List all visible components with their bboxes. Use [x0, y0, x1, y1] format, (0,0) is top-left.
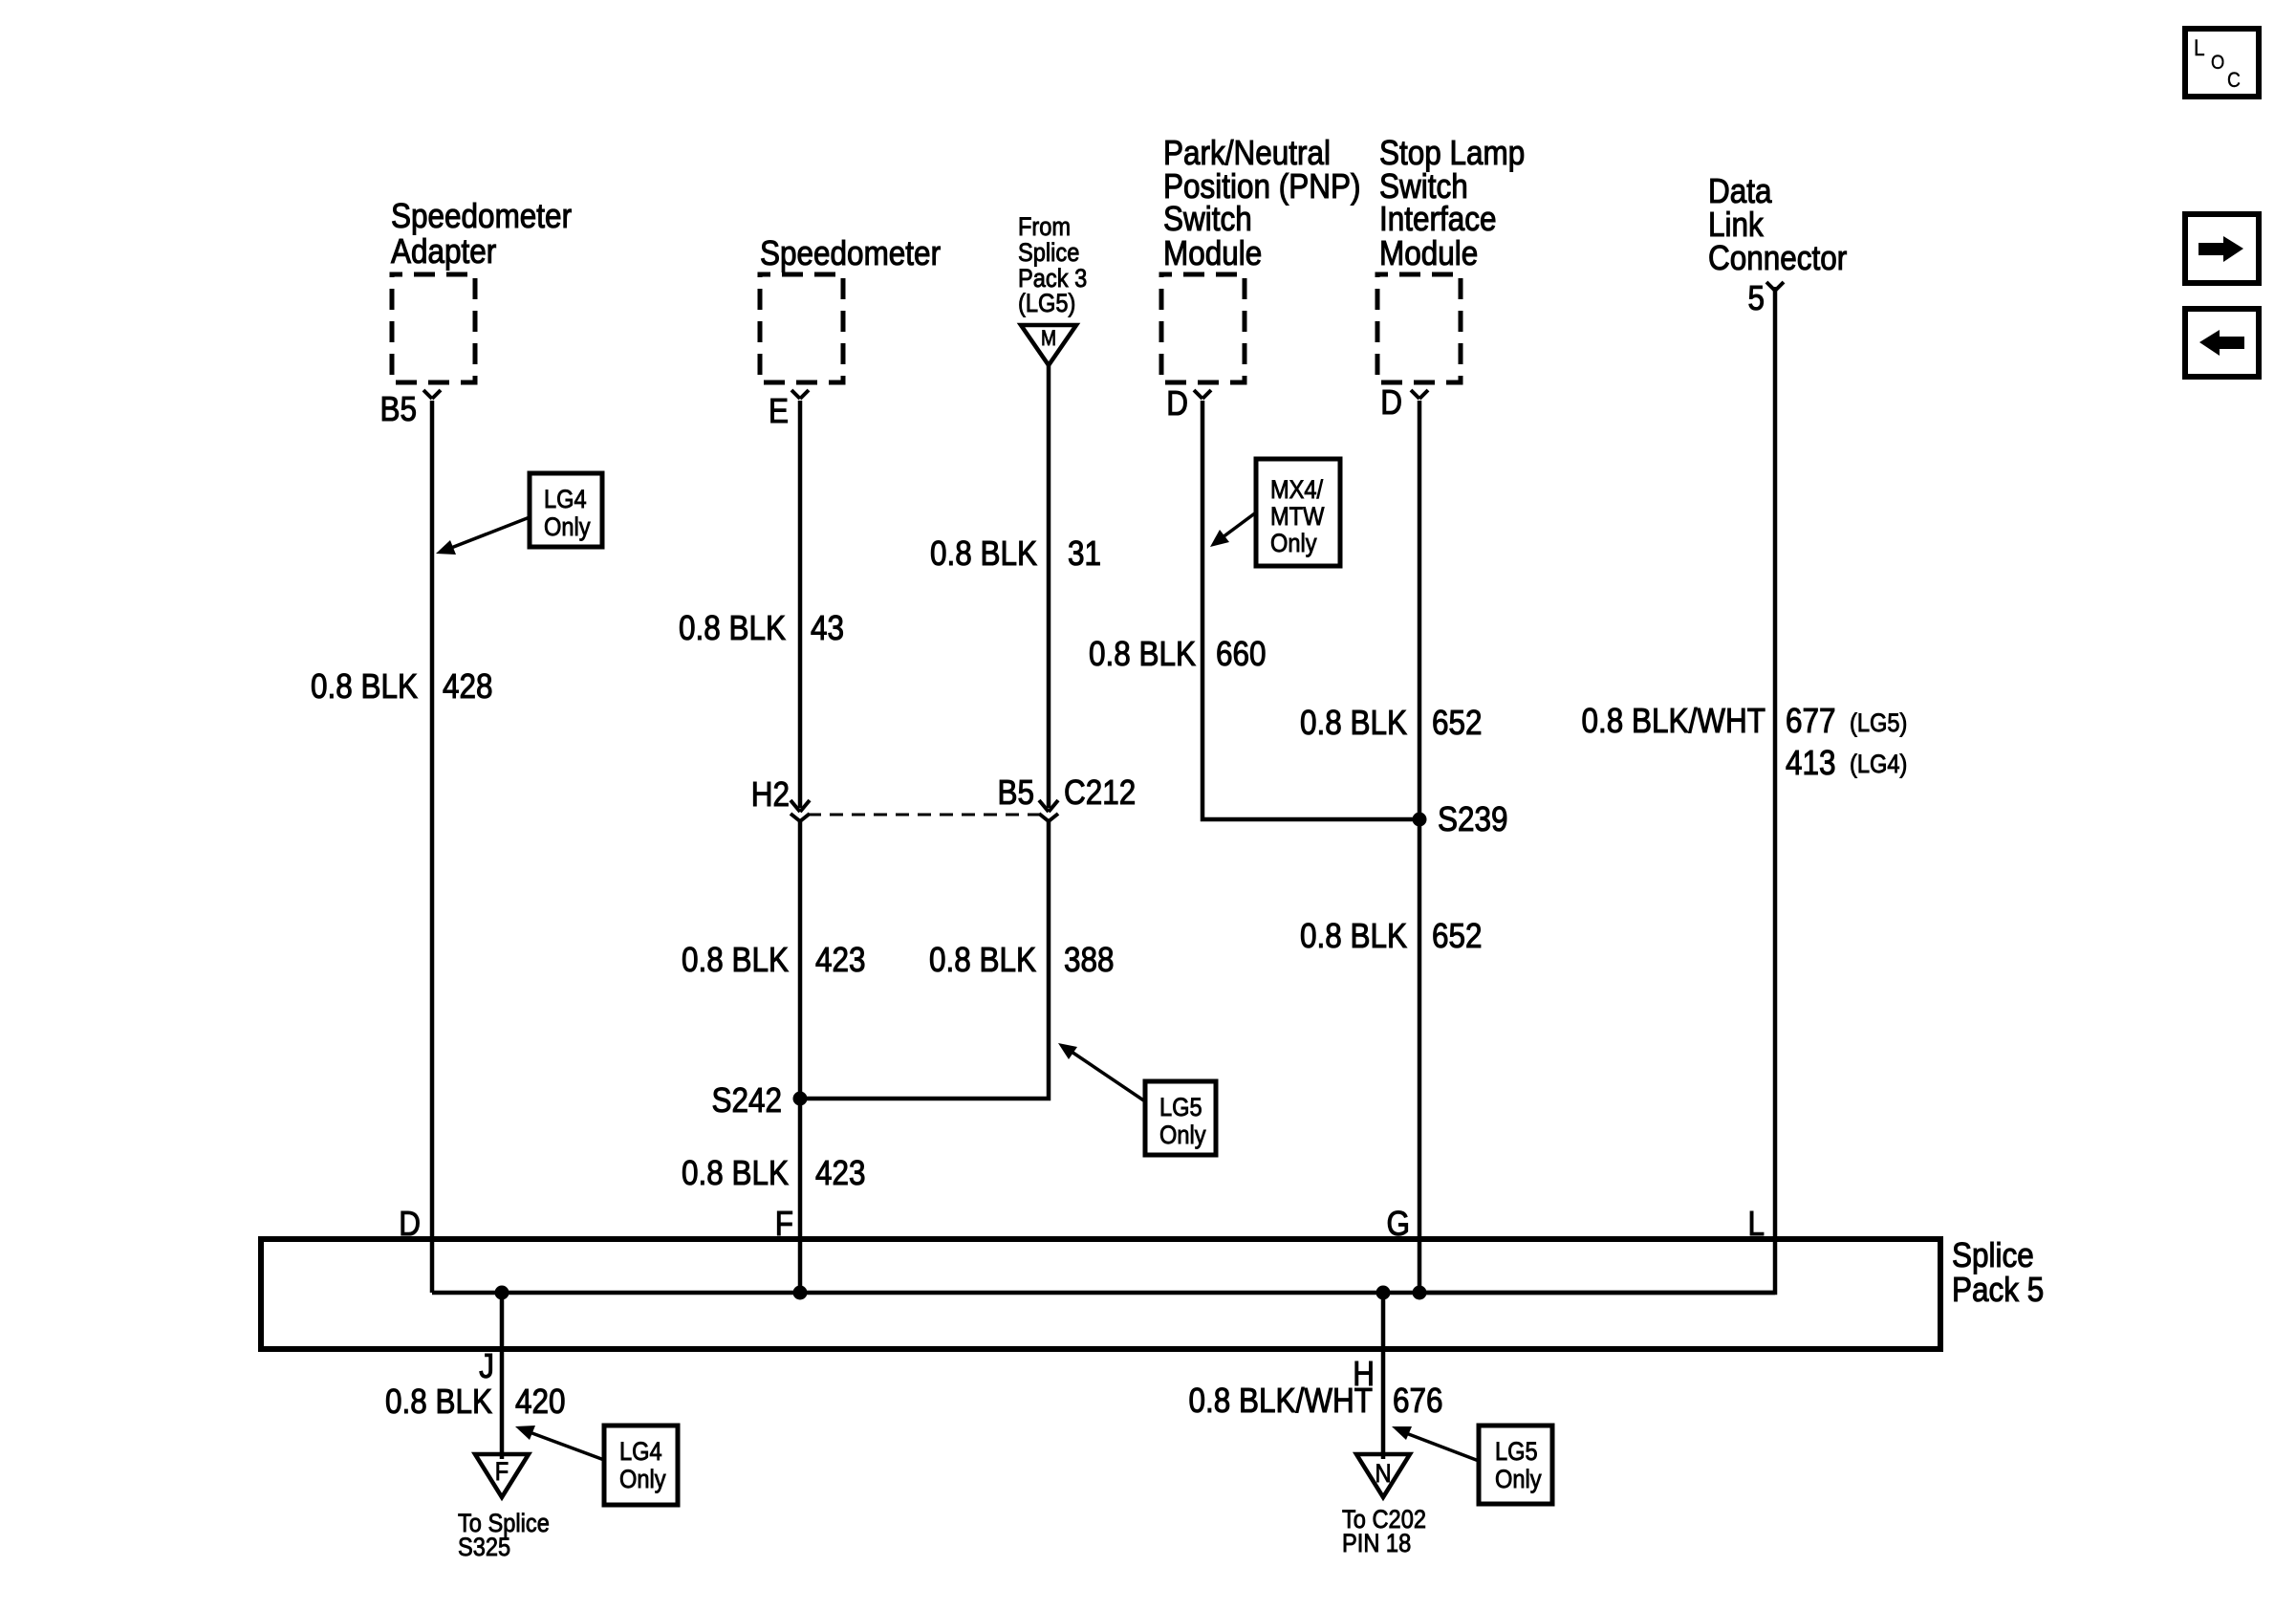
label box LG4 Only (bottom)	[604, 1426, 678, 1505]
splice S239	[1413, 800, 1508, 838]
svg-text:Module: Module	[1163, 234, 1262, 272]
svg-text:420: 420	[515, 1382, 566, 1421]
wire label 0.8 BLK 388	[929, 941, 1115, 979]
wire label 0.8 BLK 428	[311, 667, 493, 706]
svg-text:MX4/: MX4/	[1270, 476, 1324, 505]
svg-text:O: O	[2211, 52, 2224, 74]
svg-text:Splice: Splice	[1018, 239, 1079, 268]
svg-text:LG4: LG4	[544, 486, 587, 514]
svg-text:677: 677	[1786, 702, 1836, 740]
svg-text:PIN 18: PIN 18	[1342, 1530, 1411, 1558]
svg-text:S242: S242	[711, 1081, 782, 1120]
off-page triangle F to splice S325	[475, 1454, 529, 1497]
arrow from bottom LG4 Only box to wire J	[515, 1426, 604, 1460]
svg-text:Speedometer: Speedometer	[391, 197, 572, 235]
svg-text:H2: H2	[751, 775, 790, 814]
svg-text:Only: Only	[1270, 530, 1317, 558]
pin D of PNP Switch Module	[1166, 384, 1188, 423]
wire label 0.8 BLK/WHT 676	[1189, 1382, 1443, 1420]
label box LG5 Only (bottom)	[1479, 1426, 1552, 1504]
wire label 0.8 BLK 423 (lower)	[682, 1154, 866, 1192]
off-page triangle N to C202	[1356, 1454, 1410, 1497]
arrow from bottom LG5 Only box to wire H	[1392, 1426, 1479, 1461]
label box LG4 Only (upper)	[530, 473, 602, 547]
svg-text:31: 31	[1068, 534, 1101, 573]
svg-text:N: N	[1375, 1460, 1391, 1489]
svg-text:0.8 BLK/WHT: 0.8 BLK/WHT	[1582, 702, 1765, 740]
junction dot at terminal H tap	[1376, 1286, 1391, 1300]
wire label 0.8 BLK 423 (upper)	[682, 941, 866, 979]
svg-text:0.8 BLK: 0.8 BLK	[1300, 917, 1407, 955]
wire W4 PNP Switch Module to splice S239	[1202, 401, 1419, 819]
svg-text:428: 428	[443, 667, 493, 706]
svg-text:LG5: LG5	[1495, 1438, 1538, 1467]
label box MX4/MTW Only	[1256, 459, 1340, 566]
svg-text:Switch: Switch	[1163, 200, 1252, 238]
svg-text:Only: Only	[544, 513, 591, 542]
wire label 0.8 BLK 31	[930, 534, 1101, 573]
svg-text:0.8 BLK/WHT: 0.8 BLK/WHT	[1189, 1382, 1373, 1420]
component PNP Switch Module dashed box	[1161, 274, 1245, 382]
svg-text:388: 388	[1064, 941, 1115, 979]
junction dot at terminal J tap	[495, 1286, 509, 1300]
connector fork at Speedometer pin E	[791, 390, 809, 399]
svg-text:0.8 BLK: 0.8 BLK	[311, 667, 418, 706]
legend left-arrow box	[2185, 309, 2259, 377]
svg-text:LG4: LG4	[619, 1438, 662, 1467]
svg-text:Connector: Connector	[1708, 239, 1847, 277]
junction dot at terminal F	[793, 1286, 808, 1300]
wire W2 lower Speedometer to splice pack terminal F	[798, 821, 803, 1293]
svg-text:MTW: MTW	[1270, 503, 1324, 532]
svg-text:Pack 5: Pack 5	[1952, 1271, 2044, 1309]
splice pack internal bus wire	[432, 1291, 1775, 1295]
splice pack 5 box	[261, 1236, 2044, 1349]
svg-text:(LG5): (LG5)	[1850, 709, 1907, 738]
svg-text:S325: S325	[458, 1534, 510, 1562]
svg-text:413: 413	[1786, 744, 1836, 782]
svg-text:(LG4): (LG4)	[1850, 751, 1907, 779]
svg-text:0.8 BLK: 0.8 BLK	[385, 1382, 492, 1421]
svg-text:F: F	[495, 1458, 509, 1487]
connector fork at DLC pin 5	[1766, 282, 1784, 291]
arrow from middle LG5 Only box to wire W3	[1058, 1043, 1145, 1101]
svg-text:Adapter: Adapter	[391, 232, 496, 271]
svg-text:From: From	[1018, 213, 1071, 242]
wire J splice pack to triangle F	[479, 1293, 502, 1459]
svg-text:B5: B5	[379, 390, 417, 428]
svg-text:C212: C212	[1064, 773, 1136, 812]
component Park/Neutral Position (PNP) Switch Module label	[1163, 134, 1360, 272]
svg-text:Only: Only	[619, 1466, 666, 1494]
wire label 0.8 BLK/WHT 677 (LG5) 413 (LG4)	[1582, 702, 1908, 782]
junction dot at terminal G	[1413, 1286, 1427, 1300]
svg-text:5: 5	[1747, 279, 1765, 317]
svg-text:J: J	[479, 1347, 494, 1385]
label To C202 PIN 18	[1342, 1506, 1426, 1558]
inline connector C212 pin B5	[997, 773, 1136, 821]
legend right-arrow box	[2185, 214, 2259, 283]
label box LG5 Only (middle)	[1145, 1081, 1216, 1155]
connector fork at Speedometer Adapter pin B5	[423, 390, 441, 399]
svg-text:Only: Only	[1495, 1466, 1542, 1494]
arrow from MX4/MTW Only box to wire W4	[1210, 512, 1256, 547]
wire W3 triangle M to connector C212	[1047, 365, 1051, 808]
svg-text:L: L	[2194, 35, 2205, 61]
pin 5 of Data Link Connector	[1747, 279, 1765, 317]
wire label 0.8 BLK 420	[385, 1382, 566, 1421]
splice pack 5 terminal letters D F G L	[399, 1205, 1765, 1243]
arrow from upper LG4 Only box to wire W1	[436, 517, 530, 555]
svg-text:Speedometer: Speedometer	[760, 234, 941, 272]
svg-text:423: 423	[815, 941, 866, 979]
off-page triangle M from Splice Pack 3	[1021, 325, 1076, 365]
svg-text:D: D	[1166, 384, 1188, 423]
svg-text:676: 676	[1393, 1382, 1443, 1420]
wire label 0.8 BLK 660	[1089, 635, 1267, 673]
dashed mating line between H2 and C212	[808, 814, 1042, 816]
svg-text:E: E	[769, 392, 789, 430]
component Speedometer dashed box	[760, 274, 843, 382]
svg-text:0.8 BLK: 0.8 BLK	[1300, 704, 1407, 742]
svg-text:0.8 BLK: 0.8 BLK	[930, 534, 1037, 573]
svg-text:Only: Only	[1159, 1121, 1206, 1150]
label To Splice S325	[458, 1510, 550, 1562]
wire label 0.8 BLK 652 (upper)	[1300, 704, 1483, 742]
legend LOC box	[2185, 29, 2259, 97]
svg-text:423: 423	[815, 1154, 866, 1192]
wire label 0.8 BLK 652 (lower)	[1300, 917, 1483, 955]
connector fork at PNP pin D	[1194, 390, 1211, 399]
wire W2 upper Speedometer to connector H2	[798, 401, 803, 808]
component Stop Lamp Switch Interface Module label	[1379, 134, 1525, 272]
svg-text:B5: B5	[997, 773, 1034, 812]
wire W6 Data Link Connector to splice pack terminal L	[1419, 287, 1775, 1293]
svg-text:Module: Module	[1379, 234, 1478, 272]
wire W5 Stop Lamp module to splice pack terminal G	[1418, 401, 1422, 1293]
wire S242 to W3 horizontal	[800, 821, 1049, 1099]
svg-text:0.8 BLK: 0.8 BLK	[682, 1154, 789, 1192]
svg-text:0.8 BLK: 0.8 BLK	[929, 941, 1036, 979]
svg-text:Splice: Splice	[1952, 1236, 2034, 1274]
svg-text:652: 652	[1432, 917, 1483, 955]
inline connector H2	[751, 775, 810, 821]
wire W1 Speedometer Adapter to splice pack terminal D	[430, 401, 435, 1293]
svg-text:660: 660	[1216, 635, 1267, 673]
svg-text:C: C	[2227, 69, 2241, 92]
svg-text:43: 43	[811, 609, 844, 647]
pin E of Speedometer	[769, 392, 789, 430]
component Speedometer Adapter dashed box	[392, 274, 475, 382]
svg-text:0.8 BLK: 0.8 BLK	[679, 609, 786, 647]
wire H splice pack to triangle N	[1353, 1293, 1383, 1459]
component Data Link Connector label	[1708, 172, 1847, 277]
component Speedometer Adapter label	[391, 197, 572, 271]
label From Splice Pack 3 (LG5)	[1018, 213, 1087, 318]
component Stop Lamp Switch Interface Module dashed box	[1377, 274, 1461, 382]
svg-text:652: 652	[1432, 704, 1483, 742]
svg-text:(LG5): (LG5)	[1018, 290, 1075, 318]
svg-text:S239: S239	[1438, 800, 1508, 838]
connector fork at Stop Lamp pin D	[1411, 390, 1428, 399]
splice S242	[711, 1081, 807, 1120]
wire label 0.8 BLK 43	[679, 609, 844, 647]
svg-text:0.8 BLK: 0.8 BLK	[1089, 635, 1196, 673]
component Speedometer label	[760, 234, 941, 272]
svg-text:LG5: LG5	[1159, 1094, 1202, 1122]
pin B5 of Speedometer Adapter	[379, 390, 417, 428]
pin D of Stop Lamp Switch Interface Module	[1380, 383, 1402, 422]
svg-text:D: D	[1380, 383, 1402, 422]
svg-text:0.8 BLK: 0.8 BLK	[682, 941, 789, 979]
svg-text:M: M	[1041, 327, 1056, 350]
svg-text:Interface: Interface	[1379, 200, 1497, 238]
